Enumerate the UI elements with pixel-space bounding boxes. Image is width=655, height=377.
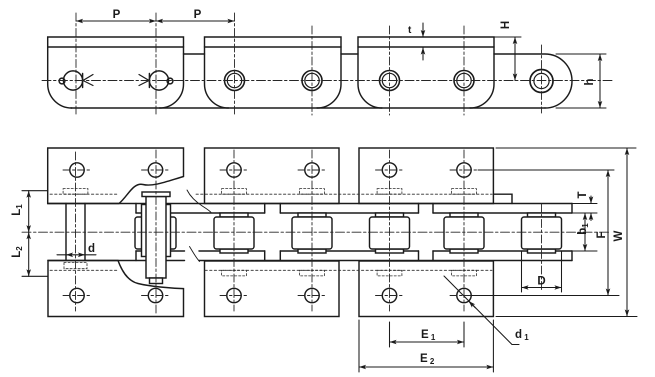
roller 3 (plan) [214, 213, 254, 253]
dimension t (plate thickness) [422, 23, 424, 60]
pin 1 (exploded, plan) [66, 204, 85, 261]
pin centerlines (side view) [76, 13, 542, 115]
chain outer plate edge lines (plan) [48, 194, 572, 260]
svg-text:h: h [584, 78, 596, 85]
svg-text:t: t [408, 25, 412, 36]
pin 2 riveted head (side view) [139, 71, 173, 90]
dimension d (pin diameter) [57, 254, 96, 256]
svg-text:P: P [194, 9, 202, 21]
dimension E2 [359, 320, 493, 372]
pin 6 (side view) [454, 71, 474, 91]
roller at pin 2 (plan) [135, 217, 176, 249]
svg-text:L2: L2 [11, 246, 24, 258]
svg-text:P: P [113, 9, 121, 21]
inner link plate bars (plan, bottom row) [136, 251, 572, 261]
bottom attachment platform 3 [359, 261, 493, 317]
connecting pin (exploded, plan) [142, 192, 170, 284]
svg-text:L1: L1 [11, 204, 24, 216]
leader d1 [444, 276, 519, 345]
hidden pin bosses (dashed hats, bottom) [64, 263, 476, 276]
dimension F [471, 170, 619, 296]
svg-text:b1: b1 [577, 223, 590, 235]
dimension b1 [572, 213, 597, 251]
top attachment platform 2 [205, 148, 340, 204]
svg-text:D: D [537, 276, 545, 288]
wavy break line near connecting pin (top) [187, 190, 212, 213]
dimension h [556, 54, 606, 108]
dimension H [494, 37, 521, 81]
pin 1 riveted head (side view) [59, 71, 93, 90]
dimension W [496, 148, 637, 317]
svg-text:d 1: d 1 [515, 329, 529, 342]
attachment link plate 1 (side view) [48, 37, 184, 108]
roller 7 (plan) [522, 213, 562, 253]
inner link plate bars (plan, top row) [136, 204, 572, 214]
horizontal centerline (side view) [42, 80, 612, 82]
dimension T [572, 196, 597, 221]
inner link plate visible in gaps + right end link [71, 54, 572, 108]
roller 4 (plan) [292, 213, 332, 253]
attachment link plate 2 (side view) [205, 37, 342, 108]
pin 4 (side view) [302, 71, 322, 91]
dimension L1 [22, 191, 48, 277]
attachment link plate 3 (side view) [358, 37, 494, 108]
svg-text:d: d [88, 243, 95, 255]
hole cross ticks [63, 170, 478, 296]
svg-text:W: W [613, 230, 625, 241]
pin centerlines (plan view) [76, 150, 542, 313]
bottom attachment platform 1 (broken by wavy line) [48, 261, 184, 317]
attachment bolt holes (top platforms) [70, 163, 471, 177]
top attachment platform 1 (broken by wavy line) [48, 148, 184, 204]
dimension P (second pitch) [156, 20, 235, 22]
bushing at pin 2 (plan) [142, 205, 171, 257]
dimension P (first pitch) [76, 20, 156, 22]
pin 5 (side view) [380, 71, 400, 91]
pin 7 (side view) [530, 70, 553, 93]
svg-text:E 2: E 2 [420, 353, 435, 366]
pin 3 (side view) [225, 71, 245, 91]
roller 5 (plan) [370, 213, 410, 253]
hidden pin bosses (dashed hats, top) [63, 189, 476, 195]
top attachment platform 3 [359, 148, 493, 204]
svg-text:E 1: E 1 [421, 329, 436, 342]
dimension E1 [390, 322, 465, 347]
roller 6 (plan) [444, 213, 484, 253]
svg-text:T: T [577, 191, 589, 198]
dimension D (roller) [522, 251, 562, 292]
attachment bolt holes (bottom platforms) [70, 288, 471, 302]
svg-text:F: F [596, 231, 608, 238]
bottom attachment platform 2 [205, 261, 340, 317]
wavy break line near connecting pin (bottom) [190, 247, 200, 262]
horizontal centerline (plan view) [22, 231, 610, 233]
svg-text:H: H [500, 21, 512, 29]
hidden edges (dashed) under platforms [50, 194, 492, 270]
dimension L2 [28, 232, 30, 276]
